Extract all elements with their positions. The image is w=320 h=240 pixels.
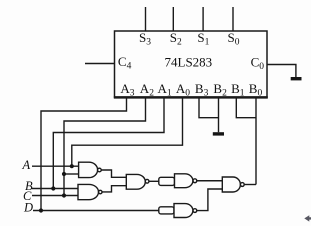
wire input B line xyxy=(32,188,78,190)
input loop of G4 xyxy=(159,177,175,185)
wire S1 stub xyxy=(202,7,204,31)
ground (B2) xyxy=(213,132,224,135)
nand gate G1 xyxy=(79,162,98,177)
wire A2 pin to C line xyxy=(64,98,146,196)
wire G3 output to loop xyxy=(149,180,159,182)
IC U1 74LS283 body xyxy=(115,31,268,97)
wire S3 stub xyxy=(145,7,147,31)
wire B2 pin to ground xyxy=(218,98,220,132)
wire B3 pin xyxy=(199,98,219,118)
wire G1 output to G3 xyxy=(101,170,126,177)
node C vertical to G1 input junction xyxy=(62,172,66,176)
wire gate G1 lower input from node xyxy=(64,173,79,175)
wire A3 pin to D line xyxy=(41,98,127,211)
wire A0 pin to A line xyxy=(72,98,183,166)
wire S2 stub xyxy=(172,7,174,31)
node A/A0 junction xyxy=(70,164,74,168)
nand gate G4 (inverter) xyxy=(175,174,193,188)
nand gate G3 xyxy=(126,174,145,189)
wire G4 output to G6 xyxy=(197,180,222,182)
svg-text:74LS283: 74LS283 xyxy=(165,55,213,70)
wire input A line xyxy=(32,165,79,167)
nand gate G2 xyxy=(78,184,99,199)
node C/A2 junction xyxy=(62,193,66,197)
wire A1 pin to B line xyxy=(53,98,164,189)
input loop of G5 xyxy=(159,207,174,214)
wire C4 output xyxy=(85,63,115,65)
wire B0 pin down to gate G6 output xyxy=(255,98,257,185)
wire B1 pin xyxy=(236,98,256,118)
nand gate G6 xyxy=(222,177,240,192)
node B/A1 junction xyxy=(51,186,55,190)
wire C0 to ground xyxy=(267,65,296,78)
wire G5 output up to G6 xyxy=(197,189,222,211)
wire G6 output to B0/B1 net xyxy=(244,184,256,186)
wire input C line xyxy=(32,195,78,197)
wire G2 output to G3 xyxy=(102,186,126,192)
wire S0 stub xyxy=(232,7,234,31)
node D/A3 junction xyxy=(39,208,43,212)
svg-text:D: D xyxy=(23,201,33,215)
svg-text:A: A xyxy=(22,158,31,172)
nand gate G5 (inverter) xyxy=(174,204,193,218)
ground (C0) xyxy=(291,77,302,80)
cursor arrow mark xyxy=(304,215,311,221)
wire input D line xyxy=(33,210,159,212)
IC bottom thick edge xyxy=(114,96,268,98)
